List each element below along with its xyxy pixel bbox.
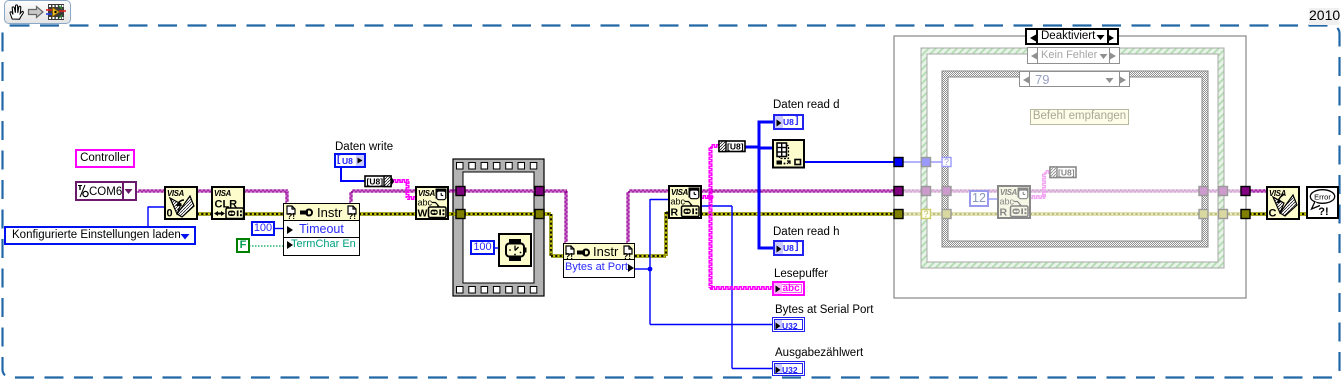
wire: error disable structure to VISA Close to error handler [1245,212,1308,216]
svg-text:VISA: VISA [167,189,185,198]
label Bytes at Serial Port [775,304,873,316]
svg-text:VISA: VISA [214,189,232,198]
label Daten read h [773,226,840,238]
svg-text:?!: ?! [1318,206,1328,218]
svg-text:W: W [418,208,428,220]
label Ausgabezaehlwert [775,347,863,359]
case selector 79 (greyed) [1019,71,1130,87]
array control terminal Daten write [U8] [334,153,366,168]
label Lesepuffer [774,268,828,280]
label Daten write [335,141,393,153]
wire: Bytes at Port to VISA Read byte count [635,268,650,270]
svg-text:VISA: VISA [1269,189,1287,198]
case selector Kein Fehler (greyed) [1027,47,1120,64]
VISA Write icon [416,187,448,220]
wire: buffer to Lesepuffer indicator [710,287,772,290]
VISA Close icon [1267,187,1299,220]
wire: VISA resource property node 2 to VISA Read [627,191,629,243]
svg-text:R: R [1000,207,1008,219]
tunnel: error into sequence frame left [456,210,465,219]
greyed VISA Read icon inside disable structure [998,186,1030,219]
svg-text:abc: abc [671,197,686,207]
numeric indicator Bytes at Serial Port U32 [772,317,805,332]
greyed String To Byte Array icon [1050,167,1076,178]
wire: Decimate output to disable structure tunnel [804,161,898,163]
wire: VISA resource VISA Write through sequence frame to property node 2 [448,190,567,192]
wire: VISA resource property node 1 to VISA Write [350,191,352,203]
numeric indicator Ausgabezaehlwert U32 [772,361,805,376]
wire: error VISA Read to disable structure [701,212,896,216]
svg-text:abc: abc [1000,197,1015,207]
wire: ring constant to VISA Configure [147,207,149,227]
wire: constant 12 to greyed VISA Read [989,198,998,200]
diagram disable structure (Deaktiviert) border [894,36,1246,298]
Byte Array To String icon [365,176,394,187]
tunnel: VISA into disable structure [894,187,903,196]
wire: array branch to Decimate input [758,147,773,150]
case structure Kein Fehler (green hatched border) [921,48,1224,268]
tunnel: VISA out of disable structure [1241,187,1250,196]
wire: String To Byte Array output (thick array wire) [744,146,759,149]
case structure 79 (checkered border) [942,71,1208,247]
svg-text:R: R [671,207,679,219]
VISA Read icon [669,186,701,219]
tunnel: error out of sequence frame right [535,210,544,219]
junction: read buffer [708,194,713,199]
wire: array branch to Daten read h [758,247,773,250]
Wait (ms) icon [499,234,531,266]
wire: Byte Array To String to VISA Write buffer [391,180,409,183]
tunnel: VISA out of sequence frame right [535,187,544,196]
Simple Error Handler icon [1307,187,1338,218]
year label 2010 [1309,8,1339,25]
svg-text:[U8]: [U8] [367,177,384,187]
tunnel: VISA out of green case [1219,187,1228,196]
wire: greyed string wire inside disable structure [1030,196,1045,199]
toolbar hand tool icon [7,3,25,21]
tunnel: array on green case border [922,158,931,167]
wire: constant 100 to Timeout [275,228,283,230]
tunnel: error out of 79 case [1199,210,1208,219]
wire: VISA resource greyed inside disable structure [898,190,1245,192]
wire: VISA Read buffer out [701,196,712,199]
tunnel: array into disable structure [894,158,903,167]
wire: VISA Read return count to Ausgabezaehlwert [701,205,732,207]
tunnel: VISA out of 79 case [1199,187,1208,196]
wire: VISA resource disable structure to VISA Close [1245,190,1267,192]
wire: error property node 1 to VISA Write [359,212,417,216]
wire: error Configure to Clear to property node 1 [197,212,284,216]
wire: error through sequence frame [447,212,457,216]
VISA Configure Serial Port icon [165,187,197,220]
wire: array branch to Daten read d [758,121,773,124]
greyed numeric constant 12 [969,190,989,207]
wire: boolean F to TermChar En (dotted green) [249,245,283,247]
svg-text:0: 0 [167,208,173,220]
numeric constant 100 [251,221,275,236]
tunnel: VISA on green case border [922,187,931,196]
array indicator Daten read d [U8] [773,114,804,130]
wire: VISA resource VISA Read to disable structure [701,190,896,192]
tunnel: error out of green case [1219,210,1228,219]
tunnel: error into disable structure [894,210,903,219]
wire: VISA resource Configure to VISA Clear [197,190,212,192]
wire: buffer to String To Byte Array [710,145,719,148]
wire: constant 100 to Wait ms [495,247,500,249]
greyed string constant Befehl empfangen [1030,109,1129,125]
label Daten read d [773,99,840,111]
string indicator Lesepuffer abc [772,281,805,296]
toolbar filmstrip icon [46,3,66,21]
property node 1 (Instr: Timeout, TermChar En) [283,203,360,256]
wire: VISA resource COM6 to VISA Configure Serial Port [137,190,165,192]
numeric constant 100 (wait) [470,240,495,255]
array indicator Daten read h [U8] [773,240,804,256]
wire: error greyed inside disable structure [898,212,1245,216]
wire: greyed array wire inside disable structure [898,161,946,163]
wire: VISA resource Clear to property node 1 [244,190,288,192]
tunnel: VISA on 79 case border [942,187,951,196]
boolean constant F [236,238,250,253]
String To Byte Array icon [719,141,745,152]
wire: error property node 2 up to VISA Read [635,254,666,258]
tunnel: error on 79 case border [942,210,951,219]
flat sequence structure (film strip frame) [453,159,544,296]
Decimate 1D Array icon [773,140,804,168]
svg-text:abc: abc [418,198,433,208]
VISA resource name control COM6 [75,181,137,201]
wire: Bytes at Port to Bytes at Serial Port indicator [649,269,651,325]
toolbar panel [4,0,71,24]
svg-text:Error: Error [1314,193,1331,202]
svg-text:[U8]: [U8] [727,142,744,152]
disable structure selector Deaktiviert [1025,28,1119,45]
wire: error down to property node 2 [549,214,553,256]
property node 2 (Instr: Bytes at Port) [563,243,635,278]
tunnel: error out of disable structure [1241,210,1250,219]
svg-text:[U8]: [U8] [1058,168,1075,178]
label Controller (control caption) [75,149,135,168]
tunnel: error unwired on green case border [922,210,931,219]
junction: bytes at port [648,267,653,272]
toolbar step arrow icon [27,5,45,19]
VISA Clear icon [212,187,244,219]
tunnel: VISA into sequence frame left [456,187,465,196]
svg-text:C: C [1269,208,1277,220]
wire: Daten write to Byte Array To String [340,167,342,182]
ring constant Konfigurierte Einstellungen laden [4,226,196,245]
tunnel: array unwired on 79 case border [942,158,951,167]
